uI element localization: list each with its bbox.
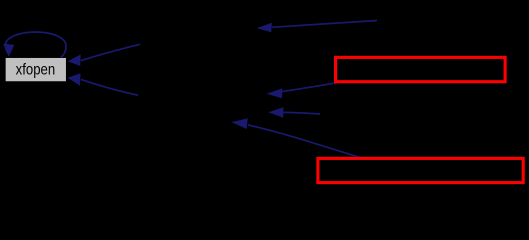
wire edge E2 top center xyxy=(257,21,377,33)
wire edge E4 from red box 1 xyxy=(267,81,345,98)
node xfopen (current function, gray) xyxy=(5,57,67,82)
wire edge E5 mid right xyxy=(268,107,320,117)
node red box 2 (truncated caller) xyxy=(318,158,523,182)
wire self-loop on xfopen xyxy=(3,32,66,57)
wire edge E3 into xfopen lower-right xyxy=(68,73,139,95)
node red box 1 (truncated caller) xyxy=(336,57,506,81)
svg-text:xfopen: xfopen xyxy=(16,62,56,79)
wire edge E6 from red box 2 xyxy=(232,118,362,158)
wire edge E1 into xfopen upper-right xyxy=(68,44,141,66)
